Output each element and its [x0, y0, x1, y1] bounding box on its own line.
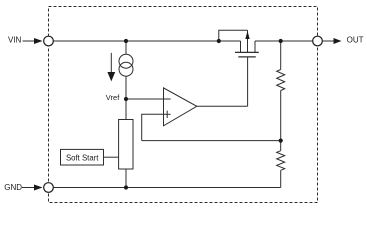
terminal OUT: [313, 36, 364, 46]
svg-text:Vref: Vref: [106, 93, 120, 102]
terminal VIN: [8, 35, 53, 46]
op-amp U1 (error amplifier): [164, 88, 197, 126]
svg-text:GND: GND: [4, 183, 22, 192]
resistor R2 (lower feedback): [277, 141, 285, 188]
wire: Vref to op-amp inverting input: [126, 98, 164, 100]
node: VIN rail / current source junction: [124, 39, 128, 43]
node: feedback divider tap: [279, 139, 283, 143]
resistor R3 (box style, Vref ladder): [119, 120, 133, 170]
svg-text:OUT: OUT: [347, 36, 364, 45]
wire: resistor bottom to GND rail: [125, 169, 127, 188]
wire: VIN rail: [53, 40, 240, 42]
IC package boundary (dashed): [49, 7, 318, 203]
transistor Q1 (PMOS pass element): [219, 30, 259, 106]
wire: GND rail: [53, 187, 281, 189]
terminal GND: [4, 183, 53, 193]
wire: Vref node down to resistor: [125, 99, 127, 120]
resistor R1 (upper feedback): [277, 41, 285, 141]
svg-text:Soft Start: Soft Start: [66, 153, 99, 162]
node: GND rail / resistor junction: [124, 185, 128, 189]
wire: OUT rail: [255, 40, 313, 42]
wire: non-inverting input feedback: [142, 114, 164, 140]
node: OUT rail / R1 junction: [279, 39, 283, 43]
node: VIN rail / gate loop junction: [217, 39, 221, 43]
wire: op-amp output to gate: [197, 105, 248, 107]
svg-text:VIN: VIN: [8, 35, 22, 44]
current source I1: [107, 41, 133, 99]
wire: feedback rail: [142, 140, 281, 142]
node: Vref: [124, 97, 128, 101]
wire: Soft Start to resistor: [104, 156, 119, 158]
Soft Start block: [61, 149, 104, 165]
